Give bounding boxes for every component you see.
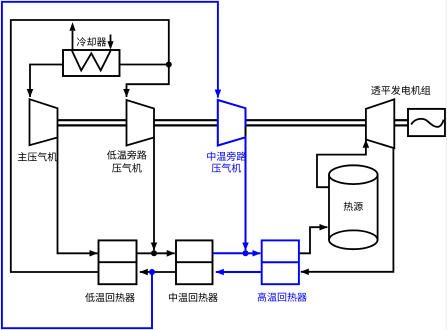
compressor: mid-temp bypass compressor 中温旁路压气机 (blue) bbox=[218, 100, 246, 146]
wire: high-temp recuperator cold outlet up into heat source (arrow right) bbox=[299, 227, 328, 253]
heat source cylinder 热源 bbox=[328, 175, 330, 240]
label: low-temp bypass compressor line2 bbox=[112, 163, 141, 172]
node: black junction dot between low and mid recuperators bbox=[151, 250, 157, 256]
label: main compressor 主压气机 bbox=[18, 152, 57, 161]
wire: bypass around cooler to low-temp bypass compressor inlet (arrow down) bbox=[127, 65, 169, 98]
label: low-temp recuperator bbox=[85, 293, 135, 302]
heat exchanger: high-temp recuperator 高温回热器 (blue) bbox=[262, 240, 299, 284]
cooling medium inlet arrow (down) bbox=[110, 35, 112, 42]
cooling medium outlet arrow (up) bbox=[72, 31, 74, 50]
wire: hot side mid->low recuperator (arrow left) bbox=[140, 271, 176, 273]
shaft: turbine to generator bbox=[394, 119, 408, 121]
heat exchanger: mid-temp recuperator 中温回热器 bbox=[176, 240, 213, 284]
node: junction dot at cooler inlet branch bbox=[166, 62, 172, 68]
wire: junction to cooler right port bbox=[120, 64, 169, 66]
label: mid-temp bypass compressor line2 (blue) bbox=[212, 163, 241, 172]
heat exchanger: cooler box bbox=[63, 50, 120, 76]
wire: cold side low->mid recuperator (arrow right) bbox=[137, 252, 175, 254]
short black segment on its right edge below shaft bbox=[245, 127, 247, 136]
node: blue junction dot before high-temp recuperator bbox=[243, 250, 249, 256]
label: heat source 热源 bbox=[344, 202, 363, 211]
generator box bbox=[408, 109, 445, 136]
compressor: low-temp bypass compressor 低温旁路压气机 bbox=[127, 100, 155, 146]
wire: cold side mid recuperator -> blue junction -> high recuperator (arrow right, blue) bbox=[213, 252, 246, 254]
label: high-temp recuperator (blue) bbox=[258, 292, 307, 301]
label: cooler 冷却器 bbox=[77, 37, 106, 46]
wire: low-temp bypass compressor outlet down to junction (arrow down) bbox=[153, 138, 155, 251]
generator sine wave bbox=[411, 119, 443, 127]
label: mid-temp recuperator bbox=[169, 293, 218, 302]
compressor: main compressor 主压气机 bbox=[30, 99, 58, 145]
heat exchanger: low-temp recuperator 低温回热器 bbox=[99, 240, 137, 284]
wire: turbine exhaust down to high-temp recuperator hot inlet (arrow left) bbox=[301, 148, 394, 272]
wire: blue mid-temp bypass loop (dot at low/mid recuperator line, down, left, up left side, across top, down into mid-temp bypass compressor) bbox=[2, 2, 218, 328]
node: blue junction dot on hot-side return line (drawn on top) bbox=[149, 269, 155, 275]
turbine: 透平 bbox=[366, 99, 394, 148]
label: mid-temp bypass compressor line1 (blue) bbox=[207, 152, 246, 161]
shaft: compressors-turbine shaft (double line) bbox=[58, 119, 366, 121]
wire: main compressor outlet down to low-temp recuperator cold inlet (arrow right) bbox=[58, 138, 98, 254]
cooler coil zigzag bbox=[72, 51, 111, 71]
label: turbine-generator set 透平发电机组 bbox=[371, 86, 430, 95]
wire: hot side high->mid recuperator (arrow left, blue) bbox=[216, 271, 262, 273]
label: low-temp bypass compressor line1 bbox=[107, 150, 147, 159]
wire: mid-temp bypass compressor outlet down to blue junction (arrow down, blue) bbox=[245, 137, 247, 250]
wire: hot-side return from low-temp recuperator, up the left side, across top, down to cooler junction bbox=[11, 20, 169, 272]
wire: heat source outlet to turbine inlet (arrow up) bbox=[317, 140, 366, 187]
wire: cooler left port to main compressor inlet (arrow down) bbox=[30, 65, 63, 98]
